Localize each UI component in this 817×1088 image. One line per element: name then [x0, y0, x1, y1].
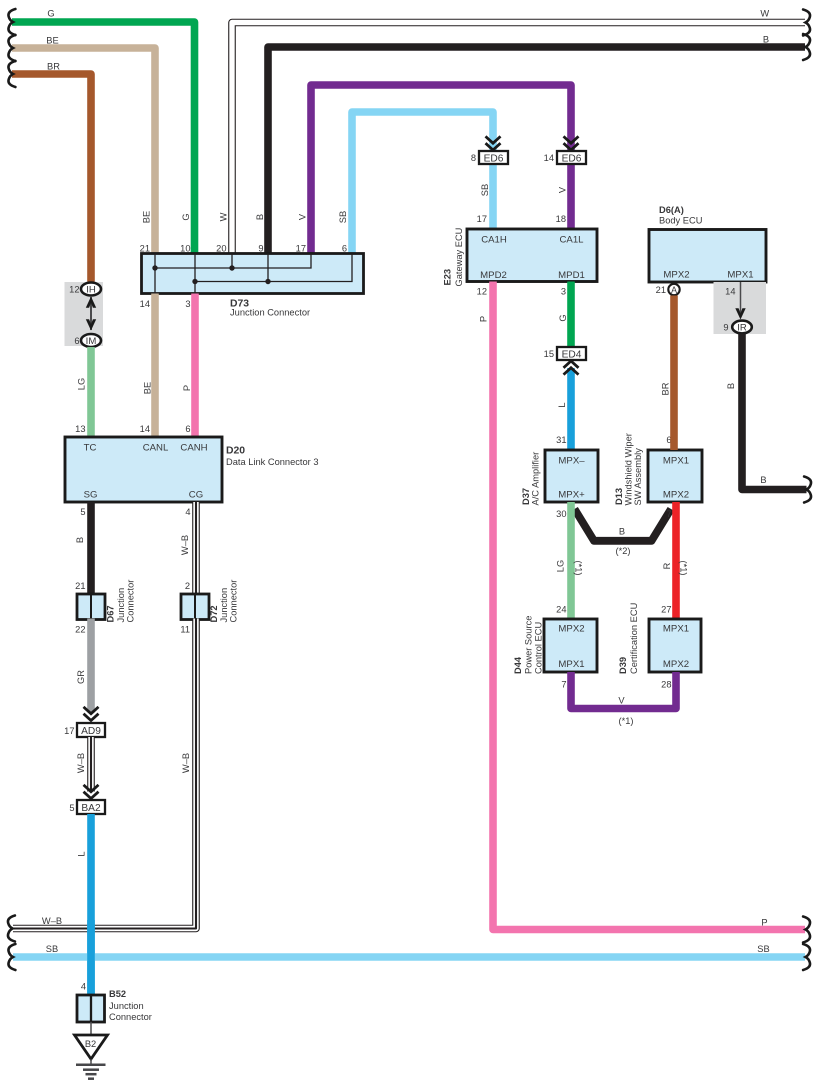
ground lead	[90, 1022, 92, 1035]
svg-text:BR: BR	[47, 62, 60, 72]
svg-text:8: 8	[471, 153, 476, 163]
svg-text:Connector: Connector	[109, 1012, 152, 1022]
svg-text:B: B	[763, 35, 769, 45]
svg-text:G: G	[47, 9, 54, 19]
svg-text:CANL: CANL	[143, 443, 169, 454]
shield box IH-IM	[65, 282, 104, 346]
svg-text:13: 13	[75, 424, 85, 434]
svg-text:SW Assembly: SW Assembly	[633, 448, 643, 506]
svg-text:BA2: BA2	[81, 803, 101, 814]
connector IR	[732, 321, 752, 334]
svg-text:2: 2	[185, 581, 190, 591]
arrow IH to IM	[86, 297, 96, 331]
svg-text:AD9: AD9	[81, 726, 101, 737]
break symbol P right	[803, 917, 810, 943]
svg-text:5: 5	[80, 507, 85, 517]
svg-text:CA1L: CA1L	[560, 235, 585, 246]
svg-text:ED6: ED6	[484, 153, 504, 164]
svg-text:V: V	[298, 213, 308, 220]
break symbol B top right	[803, 34, 810, 60]
svg-text:P: P	[182, 385, 192, 391]
wire B from IR to right edge	[742, 334, 807, 490]
wire BE from D73 pin 14 to D20 CANL	[151, 294, 159, 438]
wire V from D44 MPX1 to D39 MPX2	[571, 672, 676, 709]
svg-text:D39: D39	[618, 657, 628, 674]
svg-text:17: 17	[64, 726, 74, 736]
svg-text:SB: SB	[338, 211, 348, 223]
arrow into IR	[735, 282, 745, 320]
connector ED6 right	[557, 151, 586, 164]
svg-text:6: 6	[74, 336, 79, 346]
chevron out of ED4	[564, 361, 579, 375]
svg-text:P: P	[761, 918, 767, 928]
svg-text:Connector: Connector	[229, 580, 239, 623]
svg-text:B: B	[75, 537, 85, 543]
svg-text:Junction: Junction	[219, 588, 229, 623]
svg-text:CANH: CANH	[180, 443, 207, 454]
junction connector B52	[77, 995, 105, 1022]
svg-text:A/C Amplifier: A/C Amplifier	[531, 452, 541, 506]
junction connector D67	[77, 594, 105, 620]
svg-text:L: L	[77, 851, 87, 856]
svg-text:V: V	[618, 696, 625, 706]
svg-text:MPD2: MPD2	[480, 270, 507, 281]
svg-text:IR: IR	[737, 322, 747, 333]
svg-text:L: L	[557, 402, 567, 407]
wire L from ED4 to D37 MPX-	[567, 368, 575, 450]
power source control ECU D44	[544, 619, 597, 672]
svg-text:Body ECU: Body ECU	[659, 216, 702, 226]
svg-text:7: 7	[666, 509, 671, 519]
svg-text:14: 14	[140, 424, 150, 434]
svg-text:15: 15	[544, 349, 554, 359]
svg-text:ED6: ED6	[562, 153, 582, 164]
svg-text:30: 30	[556, 509, 566, 519]
svg-text:Windshield Wiper: Windshield Wiper	[624, 433, 634, 505]
svg-text:21: 21	[140, 244, 150, 254]
svg-text:24: 24	[556, 605, 566, 615]
svg-text:W–B: W–B	[181, 753, 191, 773]
svg-text:17: 17	[477, 214, 487, 224]
data link connector D20	[65, 437, 222, 502]
break symbol G	[8, 9, 15, 35]
svg-text:(*2): (*2)	[616, 546, 631, 556]
svg-text:5: 5	[69, 803, 74, 813]
break symbol SB left	[8, 944, 15, 970]
wire R from D13 MPX2 to D39 MPX1	[672, 502, 680, 619]
svg-text:TC: TC	[84, 443, 97, 454]
svg-text:MPX2: MPX2	[558, 624, 584, 635]
svg-text:4: 4	[81, 982, 86, 992]
svg-text:GR: GR	[76, 670, 86, 684]
wire B from D20 SG to D67	[87, 502, 95, 594]
svg-text:21: 21	[656, 285, 666, 295]
svg-text:9: 9	[723, 323, 728, 333]
svg-text:3: 3	[561, 287, 566, 297]
svg-text:CA1H: CA1H	[481, 235, 507, 246]
wire G (green) from CAN bus	[12, 22, 195, 253]
svg-text:SB: SB	[757, 944, 769, 954]
wire BR (brown) to connector IH	[12, 74, 91, 282]
wire W-B from D72 to left edge	[13, 619, 196, 929]
wire SB (sky blue) D73 pin 6 to ED6/CA1H	[352, 112, 493, 253]
connector ED4	[557, 347, 586, 360]
svg-text:22: 22	[75, 625, 85, 635]
wire L from BA2 to B52	[87, 814, 95, 995]
svg-text:Connector: Connector	[126, 580, 136, 623]
svg-text:21: 21	[75, 581, 85, 591]
svg-text:D20: D20	[226, 446, 245, 457]
svg-text:27: 27	[661, 605, 671, 615]
svg-text:(*1): (*1)	[574, 561, 584, 576]
wire W-B from AD9 to BA2	[87, 737, 95, 792]
svg-text:(*1): (*1)	[679, 561, 689, 576]
shield box IR	[714, 282, 767, 334]
svg-text:B: B	[255, 214, 265, 220]
connector IM	[81, 334, 101, 347]
wire LG from D37 MPX+ to D44 MPX2	[567, 502, 575, 619]
svg-text:Control ECU: Control ECU	[534, 622, 544, 674]
svg-text:B: B	[726, 383, 736, 389]
connector AD9	[77, 723, 105, 737]
svg-text:20: 20	[216, 244, 226, 254]
svg-text:31: 31	[556, 435, 566, 445]
svg-text:V: V	[558, 186, 568, 193]
svg-text:14: 14	[140, 299, 150, 309]
svg-text:10: 10	[180, 244, 190, 254]
break symbol W	[803, 10, 810, 36]
wire W (white) to D73 pin 20	[232, 23, 805, 254]
svg-text:Junction: Junction	[109, 1001, 144, 1011]
svg-text:LG: LG	[556, 560, 566, 572]
svg-text:MPX–: MPX–	[558, 456, 585, 467]
svg-text:4: 4	[185, 507, 190, 517]
svg-text:W: W	[219, 212, 229, 221]
wire B splice D37 MPX+ to D13 MPX2	[575, 509, 672, 541]
svg-text:SB: SB	[480, 184, 490, 196]
svg-text:MPX2: MPX2	[663, 490, 689, 501]
svg-text:Gateway ECU: Gateway ECU	[454, 228, 464, 287]
svg-text:B2: B2	[85, 1039, 96, 1049]
svg-text:12: 12	[477, 287, 487, 297]
svg-text:28: 28	[661, 680, 671, 690]
connector A	[668, 284, 679, 295]
ground triangle B2	[75, 1035, 108, 1059]
svg-text:W–B: W–B	[180, 535, 190, 555]
svg-text:BE: BE	[143, 382, 153, 394]
svg-text:D44: D44	[513, 656, 523, 674]
svg-text:B52: B52	[109, 989, 126, 999]
junction connector D72	[181, 594, 209, 620]
svg-text:BE: BE	[142, 211, 152, 223]
svg-text:MPX+: MPX+	[558, 490, 585, 501]
chevron into ED6 right	[564, 136, 579, 150]
svg-text:MPX1: MPX1	[558, 659, 584, 670]
ground symbol	[76, 1059, 106, 1079]
svg-text:D67: D67	[106, 605, 116, 622]
svg-text:CG: CG	[189, 490, 203, 501]
svg-text:MPX1: MPX1	[727, 270, 753, 281]
break symbol SB right	[803, 944, 810, 970]
svg-text:D72: D72	[209, 605, 219, 622]
break symbol BR	[8, 61, 15, 87]
wire B (black) to D73 pin 9	[268, 47, 805, 253]
wire GR from D67 to AD9	[87, 619, 95, 713]
svg-text:W–B: W–B	[76, 753, 86, 773]
break symbol B right	[804, 477, 811, 503]
wire BR from A to D13 MPX1	[670, 296, 678, 451]
svg-text:9: 9	[258, 244, 263, 254]
svg-text:ED4: ED4	[562, 349, 582, 360]
connector ED6 left	[479, 151, 508, 164]
certification ECU D39	[649, 619, 701, 672]
svg-text:17: 17	[296, 244, 306, 254]
svg-text:14: 14	[725, 287, 735, 297]
svg-text:B: B	[760, 475, 766, 485]
chevron into AD9	[84, 707, 99, 721]
svg-text:IM: IM	[86, 336, 97, 347]
svg-text:MPX1: MPX1	[663, 624, 689, 635]
wire V (violet) D73 pin 17 to ED6/CA1L	[311, 85, 571, 253]
wire BE (beige) to D73 pin 21	[12, 48, 155, 253]
body ECU D6(A)	[649, 230, 766, 283]
break symbol W-B bottom	[8, 916, 15, 942]
svg-text:D37: D37	[521, 488, 531, 505]
connector IH	[81, 283, 101, 296]
svg-text:BR: BR	[661, 382, 671, 395]
svg-text:LG: LG	[77, 378, 87, 390]
svg-text:6: 6	[342, 244, 347, 254]
svg-text:11: 11	[180, 625, 190, 635]
svg-text:Data Link Connector 3: Data Link Connector 3	[226, 457, 319, 467]
svg-text:Junction: Junction	[116, 588, 126, 623]
svg-text:3: 3	[185, 299, 190, 309]
svg-text:Certification ECU: Certification ECU	[629, 603, 639, 674]
svg-text:G: G	[558, 314, 568, 321]
wire L crossing over SB	[87, 920, 95, 995]
svg-text:D6(A): D6(A)	[659, 205, 684, 215]
wire P from E23 MPD2 to right edge	[493, 282, 805, 930]
wire W-B from D20 CG to D72	[192, 502, 200, 594]
svg-text:MPD1: MPD1	[558, 270, 585, 281]
svg-text:6: 6	[185, 424, 190, 434]
svg-text:D13: D13	[614, 488, 624, 505]
svg-text:12: 12	[69, 285, 79, 295]
A/C amplifier D37	[545, 450, 598, 502]
svg-text:W: W	[760, 9, 769, 19]
chevron into BA2	[84, 785, 99, 799]
windshield wiper SW assembly D13	[648, 450, 702, 502]
svg-text:W–B: W–B	[42, 916, 62, 926]
svg-text:SG: SG	[84, 490, 98, 501]
svg-text:BE: BE	[46, 36, 58, 46]
wire G from E23 MPD1 to ED4	[567, 282, 575, 348]
junction connector D73	[142, 254, 364, 294]
svg-text:MPX1: MPX1	[663, 456, 689, 467]
wire P from D73 pin 3 to D20 CANH	[191, 294, 199, 438]
svg-text:A: A	[671, 285, 677, 295]
gateway ECU E23	[467, 229, 597, 282]
chevron into ED6 left	[486, 136, 501, 150]
svg-text:IH: IH	[86, 284, 96, 295]
svg-text:E23: E23	[443, 269, 453, 286]
svg-text:7: 7	[561, 680, 566, 690]
D73 internal bus	[152, 254, 352, 294]
svg-text:Power Source: Power Source	[524, 616, 534, 674]
svg-text:MPX2: MPX2	[663, 659, 689, 670]
break symbol BE	[8, 35, 15, 61]
wire LG from IM to D20 TC	[87, 347, 95, 437]
svg-text:SB: SB	[46, 944, 58, 954]
svg-text:R: R	[662, 562, 672, 569]
wire SB bottom bus	[13, 953, 805, 961]
svg-text:MPX2: MPX2	[663, 270, 689, 281]
connector BA2	[77, 800, 105, 814]
svg-text:P: P	[479, 316, 489, 322]
svg-text:14: 14	[544, 153, 554, 163]
svg-text:B: B	[619, 527, 625, 537]
svg-text:Junction Connector: Junction Connector	[230, 308, 310, 318]
svg-text:18: 18	[556, 214, 566, 224]
svg-text:G: G	[181, 213, 191, 220]
svg-text:(*1): (*1)	[619, 716, 634, 726]
